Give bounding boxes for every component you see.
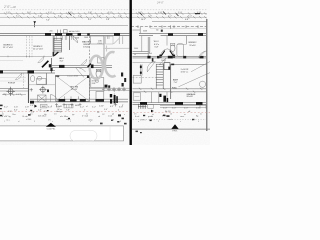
svg-text:hdr: hdr	[44, 114, 47, 116]
kitchen text	[92, 80, 99, 84]
window tag box left	[64, 104, 73, 108]
leader double lines right	[160, 106, 206, 108]
black arrow marker lower-right	[151, 110, 154, 113]
right wall of left building	[103, 36, 105, 66]
dashed centerline vertical (left bldg)	[89, 36, 91, 102]
section marker arrow (left)	[33, 21, 36, 24]
svg-text:el 100: el 100	[26, 119, 31, 121]
porch post symbol (circle-cross)	[6, 87, 15, 96]
svg-text:grade: grade	[148, 116, 154, 118]
jamb below wall	[152, 58, 154, 62]
svg-text:2-2x10: 2-2x10	[56, 106, 62, 108]
svg-text:9: 9	[34, 121, 35, 123]
hallway wall line right	[133, 61, 164, 63]
svg-text:2668: 2668	[75, 38, 79, 40]
stadium outline inside bar	[70, 131, 97, 141]
living label	[70, 87, 78, 91]
landing line	[105, 47, 130, 49]
window segs bottom wall	[58, 99, 65, 102]
entry door arc	[51, 95, 58, 103]
duct chase box	[164, 63, 170, 70]
toilet right	[170, 45, 175, 52]
bedroom door arc right	[199, 51, 207, 58]
svg-text:7'-0": 7'-0"	[174, 82, 178, 84]
jamb ticks below wall right	[107, 36, 109, 39]
svg-text:4'-2": 4'-2"	[80, 106, 84, 108]
room label master bedroom	[82, 41, 91, 49]
grade line right	[132, 128, 210, 130]
faint divider inside bar	[109, 126, 111, 141]
toilet bath2	[30, 76, 34, 82]
black seg on mid wall right B	[168, 56, 173, 59]
box above wall	[64, 30, 68, 33]
note specks above right wall	[143, 30, 159, 33]
hall dashed line right	[133, 77, 157, 79]
bath label right lower	[172, 79, 179, 90]
hall closet box right of wall	[106, 36, 114, 44]
door leaf bold left	[161, 51, 165, 57]
dimension string line A	[0, 13, 207, 15]
tag ticks	[67, 104, 72, 108]
window seg far right top wall	[198, 33, 203, 36]
keystone mark	[161, 30, 163, 32]
svg-text:20'x20': 20'x20'	[187, 96, 194, 98]
dark corner seg X room	[55, 75, 59, 77]
svg-text:3'-6": 3'-6"	[60, 61, 64, 63]
bedroom-bath divider	[185, 36, 187, 45]
svg-text:11'x10': 11'x10'	[189, 45, 196, 47]
wall left of stair	[52, 36, 54, 57]
svg-text:2468: 2468	[161, 60, 165, 62]
svg-text:6'-0": 6'-0"	[3, 94, 7, 96]
svg-text:9'-0": 9'-0"	[104, 109, 108, 111]
right band blobs	[150, 115, 195, 121]
plus tick	[114, 103, 117, 106]
svg-text:F.F.E.: F.F.E.	[172, 131, 177, 133]
svg-text:4050: 4050	[75, 105, 79, 107]
black corner of duct	[168, 67, 170, 70]
extra dark text specks	[46, 19, 189, 21]
interior wall mid-left	[50, 65, 112, 67]
porch dim specks	[3, 94, 20, 96]
bedroom door arc top	[70, 36, 77, 43]
svg-text:hdr: hdr	[156, 30, 159, 32]
dimension string line B	[0, 16, 207, 18]
sink bath2	[37, 76, 42, 80]
bold closet door leaf at stair foot	[54, 52, 58, 56]
beam tick mid	[30, 88, 33, 91]
svg-text:16"oc: 16"oc	[57, 109, 62, 111]
black seg on mid wall right A2	[157, 56, 159, 59]
svg-text:3'-4": 3'-4"	[188, 16, 192, 18]
double door arcs right	[161, 49, 174, 57]
black bars left of party wall	[121, 73, 126, 87]
center dimension band to party wall	[90, 88, 129, 90]
svg-text:#4 reb: #4 reb	[22, 116, 29, 118]
dashed vertical center	[113, 91, 115, 104]
dark dimension accents	[69, 12, 179, 17]
watermark crossbar	[103, 46, 110, 52]
window W1 in top wall	[45, 33, 51, 36]
watermark big digits	[90, 52, 116, 79]
svg-text:5x14 PSL: 5x14 PSL	[47, 128, 57, 130]
ticks above wall	[58, 30, 61, 34]
black door jamb segs on mid wall	[59, 65, 65, 68]
kitchen sink	[95, 79, 98, 82]
grade band extra specks row	[2, 113, 202, 116]
marks below grade line right	[136, 131, 142, 134]
svg-text:5'-8": 5'-8"	[155, 46, 159, 48]
black arrow marker lower-left	[34, 105, 37, 108]
svg-text:2x: 2x	[2, 113, 4, 115]
pantry box with X	[38, 95, 47, 102]
closet door arc right-mid	[147, 62, 155, 72]
svg-text:11'-0"x10': 11'-0"x10'	[33, 49, 44, 51]
benchmark triangle right	[171, 124, 178, 129]
tiny notes above wall	[50, 30, 80, 33]
dimension text specks row	[6, 12, 201, 18]
svg-text:conc: conc	[180, 116, 184, 118]
X brace diagonal 2	[56, 76, 90, 102]
tub bath2	[37, 79, 47, 85]
svg-text:5'-6": 5'-6"	[38, 110, 42, 112]
svg-text:CLO.: CLO.	[98, 43, 103, 45]
stair right	[156, 64, 163, 89]
dimension tick marks row A	[4, 12, 206, 14]
wic label	[154, 41, 160, 48]
roof slope diagonal upper	[191, 62, 210, 72]
svg-text:1'-6": 1'-6"	[6, 12, 10, 14]
entry jamb dark	[47, 90, 49, 93]
grade band dark specks	[28, 110, 165, 119]
svg-text:1'-6": 1'-6"	[30, 105, 34, 107]
second post cross	[39, 86, 46, 94]
svg-text:17'x13': 17'x13'	[71, 89, 78, 91]
svg-text:sh: sh	[134, 54, 136, 56]
svg-text:x: x	[26, 109, 27, 111]
X brace diagonal 1	[56, 76, 90, 102]
svg-text:8: 8	[120, 121, 121, 123]
svg-text:2' 0"—м: 2' 0"—м	[3, 5, 16, 9]
svg-text:3'-1": 3'-1"	[88, 19, 92, 21]
toilet (powder)	[96, 70, 101, 77]
right unit: vestibule double line	[133, 52, 149, 54]
black corner marks	[30, 101, 34, 104]
window in right top wall	[168, 33, 173, 36]
svg-text:11'-2"x10': 11'-2"x10'	[3, 47, 14, 49]
black seg on mid wall right A	[147, 56, 150, 59]
water heater circle garage	[199, 81, 205, 87]
svg-text:x: x	[52, 121, 53, 123]
svg-text:6'-2": 6'-2"	[110, 106, 114, 108]
svg-text:5040: 5040	[134, 48, 138, 50]
eave tick	[170, 25, 172, 29]
extra speck row left B	[14, 109, 119, 111]
door hinge blobs	[159, 55, 161, 58]
grade text band row2	[6, 119, 194, 122]
closet door diag	[114, 36, 120, 44]
dimension tick marks row B	[7, 16, 206, 18]
svg-text:e: e	[180, 121, 181, 123]
bedroom3 door arc	[15, 73, 22, 80]
svg-text:5'-6": 5'-6"	[14, 106, 18, 108]
survey cross ticks on right setback line	[138, 25, 198, 28]
door leaf bold right	[170, 51, 174, 57]
svg-text:2'4: 2'4	[54, 113, 56, 115]
svg-text:16: 16	[170, 113, 172, 115]
closet partition right unit	[166, 36, 168, 46]
grade text band	[2, 115, 198, 119]
black fixtures right lower	[159, 94, 161, 97]
dimension band right (y=88.8-91.8)	[133, 89, 207, 92]
kitchen counter lower	[96, 92, 104, 100]
svg-text:el 99.5: el 99.5	[140, 120, 146, 122]
appliance black cluster	[105, 85, 108, 88]
right unit floor specks	[134, 48, 152, 56]
corner step line	[133, 29, 141, 31]
vest vertical	[141, 36, 143, 52]
svg-text:4: 4	[118, 110, 119, 112]
door tag box left	[41, 104, 48, 108]
porch deck lines	[0, 78, 26, 81]
kitchen counter upper	[91, 78, 104, 88]
closet partition dashed lines (bedroom1)	[27, 36, 33, 58]
setback dashed line (right half)	[131, 26, 206, 28]
svg-text:typ: typ	[72, 113, 74, 116]
speck above bar right	[100, 123, 103, 125]
svg-text:24'-0": 24'-0"	[156, 1, 165, 5]
black segs bottom wall right	[140, 102, 147, 105]
svg-text:3'-0": 3'-0"	[108, 12, 112, 14]
mud room tick	[135, 96, 140, 98]
svg-text:16oc: 16oc	[12, 114, 16, 116]
hall specks	[161, 60, 165, 62]
spec specks row 2	[2, 109, 191, 114]
closet swing small	[81, 59, 87, 65]
shelf line bath	[29, 84, 56, 86]
svg-text:ftg: ftg	[196, 115, 198, 118]
left edge stubs	[0, 105, 3, 117]
svg-text:@16" oc: @16" oc	[181, 71, 189, 73]
svg-text:6x: 6x	[86, 113, 88, 115]
laundry box	[133, 76, 141, 84]
svg-text:4'-6": 4'-6"	[16, 94, 20, 96]
svg-text:v: v	[90, 121, 91, 123]
svg-text:3: 3	[70, 121, 71, 123]
vertical wall seg	[51, 58, 53, 73]
lower shelf faint	[0, 60, 23, 62]
hall door arc below wall	[159, 58, 166, 65]
window W4 in top wall	[78, 33, 82, 36]
sill ticks above bottom wall	[65, 96, 79, 99]
svg-text:o: o	[138, 121, 139, 123]
center band cross ticks	[102, 87, 126, 91]
plus ticks below wall	[55, 103, 82, 106]
closet label right	[98, 41, 103, 45]
garage label right	[187, 93, 197, 98]
svg-text:2'-6": 2'-6"	[106, 19, 110, 21]
dimension text row below plan	[4, 106, 200, 109]
black outlet dots	[140, 66, 142, 69]
upper leader line right	[152, 20, 207, 22]
black jamb mid	[28, 70, 35, 73]
svg-text:2'-8": 2'-8"	[25, 106, 29, 108]
room label bedroom 1	[3, 45, 14, 50]
svg-text:10'-2": 10'-2"	[141, 19, 146, 21]
door swing (hall to living)	[76, 67, 86, 77]
hook wall stub	[122, 36, 124, 44]
tag box right	[148, 104, 154, 108]
property line red dashed left	[0, 110, 128, 112]
svg-text:6 mil: 6 mil	[135, 116, 140, 118]
partition wall hall	[69, 36, 71, 50]
right room label	[189, 42, 198, 47]
porch beam double line	[0, 89, 28, 91]
bath label	[8, 82, 16, 84]
stair side wall	[170, 64, 172, 99]
svg-text:typ: typ	[97, 110, 100, 113]
rafter note right	[181, 69, 189, 73]
truss note	[67, 75, 78, 78]
svg-text:4: 4	[198, 121, 199, 123]
window W6 in top wall	[114, 33, 120, 36]
tub right	[177, 44, 184, 57]
svg-text:x: x	[124, 114, 125, 116]
svg-text:5'-2": 5'-2"	[92, 106, 96, 108]
party wall thick black	[129, 0, 131, 145]
dimension line (top dashed)	[2, 9, 207, 11]
linen closet box	[91, 36, 105, 44]
garage wall black seg	[171, 64, 174, 66]
window W5 in top wall	[87, 33, 90, 35]
svg-text:PORCH: PORCH	[8, 82, 16, 84]
svg-text:4'-0": 4'-0"	[48, 12, 52, 14]
closet shelf line left rooms	[0, 55, 52, 57]
rooms right lower verticals	[152, 92, 167, 103]
right band dotted line	[133, 118, 206, 120]
room label bedroom 2	[33, 46, 44, 51]
exterior wall top (right building)	[139, 33, 206, 35]
vanity box	[98, 58, 105, 64]
black window mullions (center bottom)	[110, 94, 112, 97]
setback dashed line (left half)	[0, 25, 128, 27]
mud room box	[133, 93, 140, 100]
svg-text:7'-4": 7'-4"	[46, 19, 50, 21]
svg-text:2'-10": 2'-10"	[99, 105, 104, 107]
svg-text:2x4: 2x4	[149, 53, 152, 55]
door tag specks	[75, 37, 88, 40]
svg-text:2: 2	[158, 121, 159, 123]
svg-text:2868: 2868	[84, 37, 88, 39]
svg-text:8'-0": 8'-0"	[14, 110, 18, 112]
interior wall right mid	[133, 56, 207, 58]
window W2 in top wall	[55, 33, 62, 36]
svg-text:oc: oc	[184, 114, 186, 116]
svg-text:gb: gb	[112, 113, 114, 115]
hall label small	[59, 57, 65, 62]
bottom wall right building	[133, 102, 207, 104]
benchmark triangle left	[46, 123, 56, 127]
riser cluster right	[138, 104, 147, 109]
laundry wall double vertical	[141, 64, 142, 75]
svg-text:5'0: 5'0	[134, 113, 136, 115]
right border wall	[206, 19, 208, 131]
svg-text:6'-8": 6'-8"	[185, 19, 189, 21]
interior wall left lower	[0, 71, 55, 73]
svg-text:3'-2": 3'-2"	[16, 16, 20, 18]
svg-text:4" slab: 4" slab	[82, 116, 89, 118]
svg-text:7'-8": 7'-8"	[66, 109, 70, 111]
svg-text:a.b. 48oc: a.b. 48oc	[60, 116, 68, 118]
plumbing wall	[28, 73, 30, 103]
living room rect (open below X)	[56, 76, 90, 102]
hall door swing at shelf	[38, 56, 44, 63]
svg-text:dbl hdr 2x10: dbl hdr 2x10	[69, 30, 79, 33]
svg-text:trusses @24: trusses @24	[67, 75, 78, 78]
stair ladder (left)	[54, 38, 62, 52]
dashed line closet	[23, 73, 25, 88]
footing bar left (section strip)	[0, 126, 124, 141]
specks above bar right cluster	[111, 120, 127, 125]
shelf ticks	[8, 55, 44, 57]
svg-text:3068: 3068	[143, 31, 147, 33]
dark jamb right of diagonal	[49, 64, 52, 67]
bath shelf line	[177, 44, 186, 46]
svg-text:2%: 2%	[48, 120, 51, 122]
right unit wall vertical A	[148, 37, 150, 56]
property line red dashed right	[133, 111, 210, 113]
black jamb at left edge	[0, 70, 3, 73]
wall connector at setback	[139, 27, 141, 34]
bath side wall	[46, 73, 48, 85]
svg-text:2x6: 2x6	[50, 31, 53, 33]
dark dash right band	[195, 13, 200, 14]
svg-text:jst: jst	[151, 113, 154, 116]
svg-text:t.o.s.: t.o.s.	[6, 119, 11, 122]
svg-text:DIN.: DIN.	[92, 83, 96, 85]
dark accent near watermark	[88, 64, 91, 68]
roof slope diagonal long	[179, 73, 211, 87]
jamb ticks below wall	[55, 36, 74, 40]
svg-text:3'-2": 3'-2"	[4, 106, 8, 108]
svg-text:2x: 2x	[200, 113, 202, 115]
bottom wall left building	[30, 99, 128, 102]
svg-text:1: 1	[4, 121, 5, 123]
window W3 in top wall	[66, 33, 73, 36]
garage top wall	[171, 63, 207, 65]
bold door leaf diagonal	[42, 61, 48, 68]
eave line right	[150, 27, 206, 29]
exterior wall top (left building)	[0, 32, 129, 34]
extra speck row left A	[30, 105, 124, 108]
svg-text:1/2: 1/2	[102, 114, 105, 116]
svg-text:x: x	[51, 105, 52, 107]
porch dim line	[2, 94, 26, 96]
